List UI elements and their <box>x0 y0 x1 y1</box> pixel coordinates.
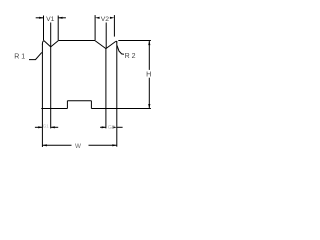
V2 dim left extension line <box>94 15 96 40</box>
H dim top arrowhead <box>148 41 150 45</box>
bottom edge right segment + H bottom extension line <box>91 108 150 110</box>
V1 dim left arrow tail <box>36 17 44 19</box>
H dim top extension line <box>118 40 151 42</box>
V1 groove left wall <box>44 41 51 47</box>
G2 dim right arrowhead <box>113 126 117 128</box>
V2 centerline <box>105 23 107 49</box>
right edge <box>116 41 118 147</box>
V2 groove left wall <box>95 41 106 49</box>
G1 dim right arrow tail <box>51 126 59 128</box>
V1 dim right arrowhead <box>58 17 62 19</box>
H dim line upper <box>148 41 150 70</box>
bottom edge left segment <box>41 108 67 110</box>
V1 centerline <box>50 23 52 47</box>
bottom groove right step <box>90 101 92 109</box>
G1 dim left arrowhead <box>38 126 42 128</box>
R1 leader <box>29 52 42 59</box>
top surface <box>58 40 95 42</box>
svg-text:V1: V1 <box>46 16 55 23</box>
V1 dim right extension line <box>57 16 59 41</box>
left edge <box>41 44 43 147</box>
svg-text:R 2: R 2 <box>125 53 136 60</box>
svg-text:G1: G1 <box>43 124 50 129</box>
R1 corner arc <box>42 41 44 45</box>
svg-text:R 1: R 1 <box>14 54 25 61</box>
V2 dim left arrowhead <box>95 17 100 19</box>
G1 dim right arrowhead <box>51 126 55 128</box>
V1 groove right wall <box>51 41 59 47</box>
G2 dim left arrowhead <box>102 126 106 128</box>
H dim line lower <box>148 78 150 109</box>
svg-text:G2: G2 <box>108 125 115 131</box>
V2 dim right extension line <box>113 15 115 36</box>
svg-text:H: H <box>146 70 151 79</box>
R2 corner arc <box>116 41 117 42</box>
W dim left arrowhead <box>42 144 47 146</box>
V1 slot line <box>50 47 52 128</box>
W dim line right <box>89 144 117 146</box>
V2 groove right wall <box>106 42 116 49</box>
V1 dim left arrowhead <box>39 17 43 19</box>
G2 dim left arrow tail <box>100 126 106 128</box>
G1 dim left arrow tail <box>35 126 43 128</box>
svg-text:V2: V2 <box>101 16 110 23</box>
V2 dim right arrowhead <box>110 17 115 19</box>
bottom groove left step <box>66 101 68 109</box>
H dim bottom arrowhead <box>148 104 150 108</box>
svg-text:W: W <box>75 143 81 150</box>
W dim right arrowhead <box>112 144 117 146</box>
V1 dim right arrow tail <box>58 17 66 19</box>
V2 slot line <box>105 49 107 129</box>
W dim line left <box>42 144 71 146</box>
R2 leader <box>117 45 124 54</box>
V1 dim left extension line <box>43 16 45 41</box>
bottom groove top <box>67 100 91 102</box>
G2 dim right arrow tail <box>117 126 123 128</box>
